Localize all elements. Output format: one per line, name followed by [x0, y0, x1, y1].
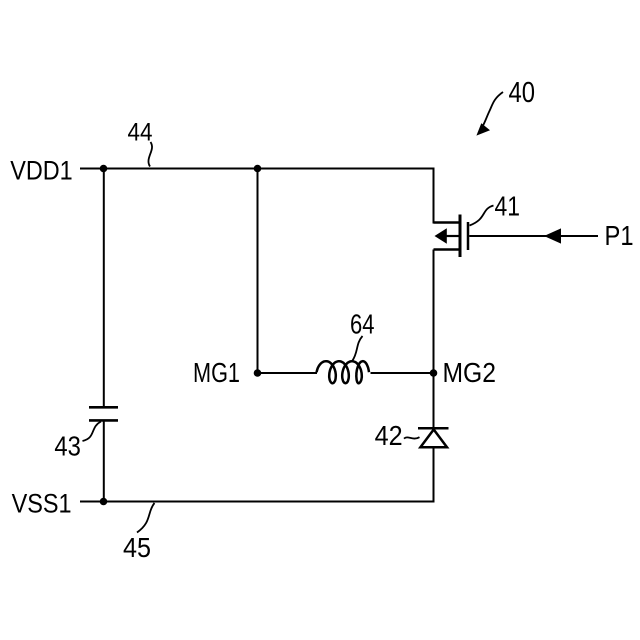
svg-text:44: 44	[128, 118, 153, 146]
wire bottom rail 45	[80, 501, 435, 503]
svg-text:VSS1: VSS1	[12, 488, 72, 518]
wire top rail 44	[80, 168, 435, 170]
inductor L64	[317, 361, 369, 383]
svg-text:MG2: MG2	[443, 357, 497, 388]
wire right vertical source to MG2	[433, 250, 435, 374]
wire diode to bottom rail	[433, 447, 435, 501]
svg-text:P1: P1	[605, 220, 634, 251]
arrowhead P1	[544, 228, 561, 243]
arrowhead 40	[476, 123, 490, 135]
junction dot VSS1	[100, 498, 108, 506]
wire middle vertical	[257, 169, 259, 374]
svg-text:VDD1: VDD1	[10, 156, 72, 186]
wire gate line to P1	[469, 235, 598, 237]
svg-text:43: 43	[54, 430, 81, 461]
diode D42	[418, 428, 449, 447]
wire right vertical drain	[433, 168, 435, 224]
junction dot VDD1/left	[100, 165, 108, 173]
svg-text:45: 45	[123, 532, 151, 563]
transistor Q41	[434, 215, 469, 258]
wire left vertical lower	[103, 420, 105, 501]
leader 45	[137, 503, 155, 533]
wire MG1 to inductor	[258, 372, 318, 374]
leader 42	[404, 437, 420, 438]
svg-text:40: 40	[509, 77, 536, 109]
capacitor C43	[89, 407, 118, 420]
svg-text:64: 64	[350, 309, 375, 340]
leader 64	[352, 336, 362, 361]
wire left vertical upper	[103, 169, 105, 408]
junction dot MG2	[430, 369, 438, 377]
leader 41	[470, 206, 494, 226]
leader 44	[148, 142, 152, 167]
svg-text:41: 41	[495, 191, 521, 222]
junction dot VDD1/middle	[254, 165, 262, 173]
svg-text:42: 42	[375, 420, 403, 451]
leader arrow 40	[483, 92, 504, 127]
wire MG2 to diode	[433, 373, 435, 428]
wire inductor to MG2	[371, 372, 434, 374]
svg-text:MG1: MG1	[193, 357, 240, 388]
leader 43	[83, 422, 102, 442]
junction dot MG1	[254, 369, 262, 377]
